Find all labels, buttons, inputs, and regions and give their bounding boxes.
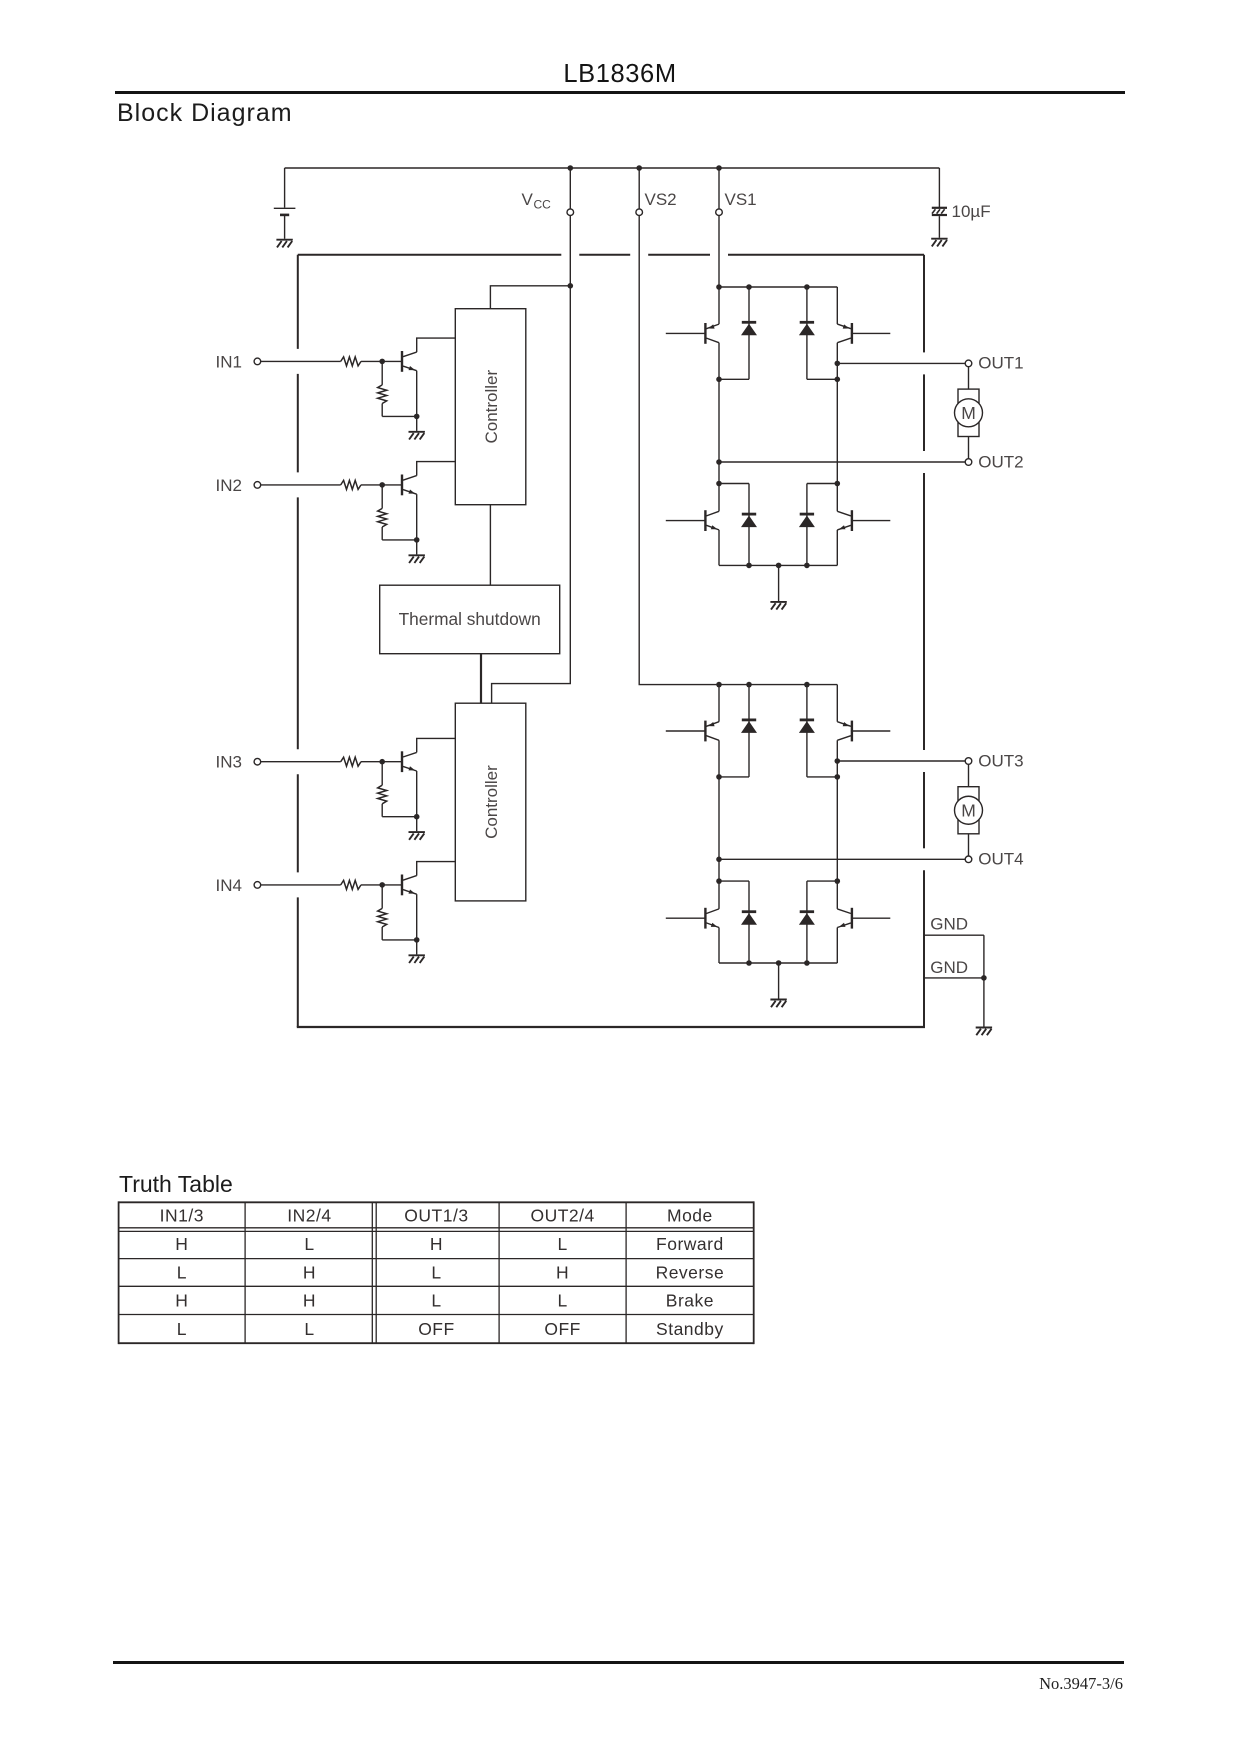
node bridge1 bottom rail x778 bbox=[776, 563, 782, 569]
battery supply bbox=[274, 168, 296, 239]
transistor bridge1 upper-right PNP bbox=[837, 287, 890, 379]
node IN3 base junction bbox=[379, 759, 385, 765]
pin VCC terminal bbox=[567, 209, 574, 216]
wire IN4 emitter ground stem bbox=[416, 940, 418, 955]
label VCC bbox=[522, 190, 552, 212]
resistor IN3 pulldown bbox=[378, 763, 387, 817]
wire bridge2 ground stem bbox=[778, 963, 780, 999]
resistor IN2 series bbox=[341, 480, 361, 489]
wire IN4 to base bbox=[361, 884, 402, 886]
transistor bridge2 upper-right PNP bbox=[837, 685, 890, 777]
pin OUT3 terminal bbox=[965, 758, 972, 765]
wire bridge2 left mid drop bbox=[718, 777, 720, 881]
svg-text:GND: GND bbox=[930, 958, 968, 977]
wire VCC drop bbox=[569, 168, 571, 209]
svg-text:L: L bbox=[431, 1290, 441, 1310]
transistor Q3 bbox=[402, 738, 455, 816]
pin VS1 terminal bbox=[716, 209, 723, 216]
ground IN2 stage bbox=[409, 555, 425, 563]
ground bridge2 bbox=[770, 1000, 786, 1008]
wire bridge1 lower-right shelf bbox=[807, 483, 837, 485]
transistor Q4 bbox=[402, 862, 455, 940]
svg-text:L: L bbox=[177, 1262, 187, 1282]
diode bridge2 upper-right bbox=[799, 685, 815, 777]
wire bridge2 lower-right shelf bbox=[807, 880, 837, 882]
svg-text:IN2: IN2 bbox=[216, 476, 242, 495]
resistor IN4 pulldown bbox=[378, 886, 387, 940]
wire VS2 drop bbox=[638, 168, 640, 209]
svg-text:Thermal shutdown: Thermal shutdown bbox=[399, 609, 541, 629]
label OUT3 bbox=[978, 751, 1023, 770]
node bridge2 bottom rail x749 bbox=[746, 960, 752, 966]
resistor IN3 series bbox=[341, 757, 361, 766]
diode bridge1 upper-right bbox=[799, 287, 815, 379]
ground battery bbox=[276, 240, 292, 248]
svg-text:10µF: 10µF bbox=[952, 202, 991, 221]
wire top supply rail bbox=[285, 167, 940, 169]
resistor IN4 series bbox=[341, 880, 361, 889]
node bridge1 shelf left bbox=[716, 481, 722, 487]
svg-text:V: V bbox=[522, 190, 534, 209]
pin IN4 terminal bbox=[254, 882, 261, 889]
diode bridge1 upper-left bbox=[741, 287, 757, 379]
motor M2 bbox=[955, 765, 983, 856]
wire IN2 emitter tie bbox=[382, 539, 417, 541]
diode bridge2 lower-left bbox=[741, 881, 757, 963]
node VS1 rail junction bbox=[716, 165, 722, 171]
label 10uF bbox=[952, 202, 991, 221]
wire bridge1 ground stem bbox=[778, 565, 780, 601]
node bridge2 out-bot tap bbox=[716, 857, 722, 863]
label OUT4 bbox=[978, 850, 1023, 869]
node GND junction bbox=[981, 975, 987, 981]
wire IN2 input bbox=[261, 484, 341, 486]
wire IN1 to base bbox=[361, 360, 402, 362]
wire bridge1 left mid drop bbox=[718, 379, 720, 483]
truth table row 3 bbox=[175, 1290, 714, 1310]
node IN1 base junction bbox=[379, 359, 385, 365]
label OUT1 bbox=[978, 354, 1023, 373]
truth table row 1 bbox=[175, 1234, 723, 1254]
node bridge1 mid rail right bbox=[835, 377, 841, 383]
node bridge1 bottom rail x749 bbox=[746, 563, 752, 569]
wire IN2 emitter ground stem bbox=[416, 540, 418, 555]
node bridge1 bottom rail x806 bbox=[804, 563, 810, 569]
pin OUT4 terminal bbox=[965, 856, 972, 863]
wire IN3 to base bbox=[361, 761, 402, 763]
node bridge2 shelf left bbox=[716, 878, 722, 884]
svg-text:VS2: VS2 bbox=[645, 190, 677, 209]
block controller U1 bbox=[455, 309, 526, 505]
wire OUT4 bbox=[719, 858, 965, 860]
wire controller1 VCC feed bbox=[490, 286, 570, 309]
svg-text:CC: CC bbox=[534, 198, 552, 212]
svg-text:GND: GND bbox=[930, 915, 968, 934]
wire bridge1 lower-left shelf bbox=[719, 483, 749, 485]
svg-text:Controller: Controller bbox=[482, 765, 501, 839]
node bridge1 d2 top bbox=[804, 284, 810, 290]
wire GND tie bbox=[983, 935, 985, 978]
svg-text:Mode: Mode bbox=[667, 1206, 713, 1226]
svg-text:H: H bbox=[175, 1290, 188, 1310]
label IN4 bbox=[216, 876, 242, 895]
label GND upper bbox=[930, 915, 968, 934]
resistor IN1 series bbox=[341, 357, 361, 366]
wire VCC internal bbox=[492, 216, 571, 703]
node VS2 rail junction bbox=[636, 165, 642, 171]
node bridge1 d1 top bbox=[746, 284, 752, 290]
wire GND upper bbox=[924, 934, 984, 936]
svg-text:Brake: Brake bbox=[666, 1290, 714, 1310]
svg-text:IN2/4: IN2/4 bbox=[287, 1206, 331, 1226]
node bridge1 shelf right bbox=[835, 481, 841, 487]
transistor bridge1 lower-left NPN bbox=[666, 484, 719, 566]
page title LB1836M bbox=[0, 60, 1240, 89]
wire bridge1 mid-right elbow bbox=[807, 378, 837, 380]
svg-text:L: L bbox=[431, 1262, 441, 1282]
svg-text:OUT2: OUT2 bbox=[978, 452, 1023, 471]
wire IN4 input bbox=[261, 884, 341, 886]
svg-text:L: L bbox=[557, 1234, 567, 1254]
svg-text:Reverse: Reverse bbox=[656, 1262, 725, 1282]
node IN4 base junction bbox=[379, 882, 385, 888]
node bridge2 shelf right bbox=[835, 878, 841, 884]
node IN3 emitter junction bbox=[414, 814, 420, 820]
node bridge2 d2 top bbox=[804, 682, 810, 688]
truth table row 4 bbox=[177, 1319, 724, 1339]
svg-text:Forward: Forward bbox=[656, 1234, 724, 1254]
wire bridge1 right mid drop bbox=[836, 379, 838, 483]
node bridge2 rail left bbox=[716, 682, 722, 688]
top rule bbox=[115, 91, 1125, 94]
node bridge1 mid rail left bbox=[716, 377, 722, 383]
node bridge2 mid rail left bbox=[716, 774, 722, 780]
transistor bridge2 upper-left PNP bbox=[666, 685, 719, 777]
svg-text:Standby: Standby bbox=[656, 1319, 724, 1339]
svg-text:OUT4: OUT4 bbox=[978, 850, 1023, 869]
heading Truth Table bbox=[119, 1171, 233, 1198]
node IN2 emitter junction bbox=[414, 537, 420, 543]
wire VS1 to bridge1 bbox=[718, 216, 720, 287]
svg-text:M: M bbox=[961, 403, 976, 423]
transistor bridge1 lower-right NPN bbox=[837, 484, 890, 566]
wire IN1 emitter ground stem bbox=[416, 416, 418, 431]
svg-text:OUT2/4: OUT2/4 bbox=[530, 1206, 594, 1226]
ground IN4 stage bbox=[409, 955, 425, 963]
wire thermal-shutdown to controller2 bbox=[480, 654, 482, 704]
svg-text:H: H bbox=[303, 1262, 316, 1282]
node bridge2 d1 top bbox=[746, 682, 752, 688]
node bridge1 rail left bbox=[716, 284, 722, 290]
svg-text:IN3: IN3 bbox=[216, 753, 242, 772]
resistor IN2 pulldown bbox=[378, 486, 387, 540]
svg-text:H: H bbox=[303, 1290, 316, 1310]
svg-text:OUT3: OUT3 bbox=[978, 751, 1023, 770]
ground IN3 stage bbox=[409, 832, 425, 840]
footer rule bbox=[113, 1661, 1124, 1664]
label IN3 bbox=[216, 753, 242, 772]
pin OUT1 terminal bbox=[965, 360, 972, 367]
truth table grid bbox=[119, 1201, 754, 1344]
wire VS1 drop bbox=[718, 168, 720, 209]
diode bridge1 lower-left bbox=[741, 484, 757, 566]
node bridge2 bottom rail x778 bbox=[776, 960, 782, 966]
wire bridge2 mid-left elbow bbox=[719, 776, 749, 778]
wire OUT2 bbox=[719, 461, 965, 463]
node VCC rail junction bbox=[568, 165, 574, 171]
diode bridge2 lower-right bbox=[799, 881, 815, 963]
ground bridge1 bbox=[770, 602, 786, 610]
label IN1 bbox=[216, 352, 242, 371]
svg-text:L: L bbox=[177, 1319, 187, 1339]
transistor bridge1 upper-left PNP bbox=[666, 287, 719, 379]
pin IN3 terminal bbox=[254, 758, 261, 765]
wire GND lower bbox=[924, 977, 984, 979]
wire IN3 input bbox=[261, 761, 341, 763]
wire bridge2 upper rail bbox=[719, 684, 837, 686]
svg-text:M: M bbox=[961, 800, 976, 820]
label OUT2 bbox=[978, 452, 1023, 471]
wire OUT3 bbox=[837, 760, 965, 762]
node bridge2 mid rail right bbox=[835, 774, 841, 780]
truth table header bbox=[160, 1206, 713, 1226]
wire GND ground stem bbox=[983, 978, 985, 1027]
wire bridge2 mid-right elbow bbox=[807, 776, 837, 778]
wire bridge2 right mid drop bbox=[836, 777, 838, 881]
svg-text:VS1: VS1 bbox=[725, 190, 757, 209]
svg-text:IN1: IN1 bbox=[216, 352, 242, 371]
node VCC-controller1 junction bbox=[568, 283, 574, 289]
ground IN1 stage bbox=[409, 432, 425, 440]
node bridge1 out-bot tap bbox=[716, 459, 722, 465]
wire IN3 emitter ground stem bbox=[416, 817, 418, 832]
transistor bridge2 lower-right NPN bbox=[837, 881, 890, 963]
svg-text:H: H bbox=[556, 1262, 569, 1282]
wire bridge1 bottom rail bbox=[719, 564, 837, 566]
svg-text:IN4: IN4 bbox=[216, 876, 242, 895]
motor M1 bbox=[955, 367, 983, 459]
wire IN1 input bbox=[261, 360, 341, 362]
transistor Q1 bbox=[402, 338, 455, 416]
svg-text:H: H bbox=[430, 1234, 443, 1254]
svg-text:OUT1: OUT1 bbox=[978, 354, 1023, 373]
block controller U2 bbox=[455, 703, 526, 901]
diode bridge1 lower-right bbox=[799, 484, 815, 566]
wire IN3 emitter tie bbox=[382, 816, 417, 818]
svg-text:OUT1/3: OUT1/3 bbox=[404, 1206, 468, 1226]
transistor Q2 bbox=[402, 462, 455, 540]
wire IN2 to base bbox=[361, 484, 402, 486]
wire controller1 to thermal-shutdown bbox=[489, 505, 491, 586]
diode bridge2 upper-left bbox=[741, 685, 757, 777]
wire OUT1 bbox=[837, 362, 965, 364]
wire bridge1 upper rail bbox=[719, 286, 837, 288]
truth table row 2 bbox=[177, 1262, 725, 1282]
heading Block Diagram bbox=[117, 99, 293, 128]
footer page number bbox=[0, 1674, 1123, 1694]
node bridge2 out-top tap bbox=[835, 758, 841, 764]
resistor IN1 pulldown bbox=[378, 362, 387, 416]
wire bridge2 bottom rail bbox=[719, 962, 837, 964]
wire bridge1 mid-left elbow bbox=[719, 378, 749, 380]
transistor bridge2 lower-left NPN bbox=[666, 881, 719, 963]
svg-text:L: L bbox=[304, 1319, 314, 1339]
wire bridge2 lower-left shelf bbox=[719, 880, 749, 882]
svg-text:H: H bbox=[175, 1234, 188, 1254]
wire IN4 emitter tie bbox=[382, 939, 417, 941]
svg-text:L: L bbox=[304, 1234, 314, 1254]
node bridge1 out-top tap bbox=[835, 361, 841, 367]
svg-text:IN1/3: IN1/3 bbox=[160, 1206, 204, 1226]
block thermal shutdown bbox=[380, 585, 560, 654]
pin IN2 terminal bbox=[254, 482, 261, 489]
node IN1 emitter junction bbox=[414, 414, 420, 420]
svg-text:OFF: OFF bbox=[544, 1319, 581, 1339]
wire IN1 emitter tie bbox=[382, 415, 417, 417]
svg-text:OFF: OFF bbox=[418, 1319, 455, 1339]
ground GND pins bbox=[976, 1028, 992, 1036]
svg-text:Controller: Controller bbox=[482, 370, 501, 444]
label VS2 bbox=[645, 190, 677, 209]
capacitor 10uF bbox=[932, 168, 947, 238]
label IN2 bbox=[216, 476, 242, 495]
node IN2 base junction bbox=[379, 482, 385, 488]
node IN4 emitter junction bbox=[414, 937, 420, 943]
pin IN1 terminal bbox=[254, 358, 261, 365]
wire VS2 to bridge2 bbox=[639, 216, 719, 685]
pin OUT2 terminal bbox=[965, 459, 972, 466]
node bridge2 bottom rail x806 bbox=[804, 960, 810, 966]
label GND lower bbox=[930, 958, 968, 977]
svg-text:L: L bbox=[557, 1290, 567, 1310]
IC boundary box bbox=[297, 255, 925, 1027]
ground capacitor bbox=[931, 239, 947, 247]
pin VS2 terminal bbox=[636, 209, 643, 216]
label VS1 bbox=[725, 190, 757, 209]
